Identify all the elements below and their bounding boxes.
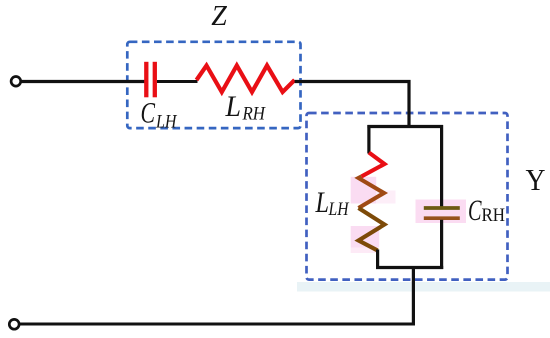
svg-text:C: C: [141, 97, 156, 130]
dashed admittance box Y: [307, 113, 508, 280]
capacitor C_RH: [424, 208, 460, 218]
svg-text:RH: RH: [242, 105, 267, 125]
wire top-left segment: [21, 80, 144, 83]
svg-text:L: L: [315, 186, 329, 219]
wire bottom rail: [20, 322, 415, 325]
wire shunt branch down to bottom rail: [412, 266, 415, 326]
inductor L_LH (brown lower part of zigzag): [359, 208, 385, 251]
svg-text:Z: Z: [211, 1, 227, 32]
highlight behind inductor L_LH (pink marks): [351, 177, 396, 253]
inductor L_RH (red zigzag): [197, 66, 295, 93]
wire right branch lower: [440, 220, 443, 269]
svg-text:LH: LH: [155, 113, 178, 133]
wire from L_RH to top node, then down into shunt branch: [295, 82, 409, 128]
svg-text:L: L: [225, 90, 241, 123]
faint highlight band under Y box bottom edge: [297, 282, 550, 292]
wire right branch upper: [440, 125, 443, 207]
inductor L_LH (brown upper part of zigzag): [359, 176, 385, 208]
svg-text:LH: LH: [328, 200, 350, 220]
wire left branch top stub: [367, 125, 370, 154]
inductor L_LH (red part of zigzag): [362, 153, 385, 177]
dashed impedance box Z: [127, 42, 300, 128]
svg-text:RH: RH: [482, 206, 506, 226]
svg-text:C: C: [468, 194, 482, 227]
terminal port bottom-left: [9, 319, 19, 329]
highlight behind capacitor C_RH (pink mark): [416, 200, 467, 224]
terminal port top-left: [11, 77, 21, 87]
capacitor C_LH: [146, 62, 155, 98]
wire left branch bottom stub: [376, 250, 379, 270]
inner loop bottom wire: [376, 266, 443, 269]
svg-text:Y: Y: [526, 162, 546, 197]
wire between C_LH and L_RH: [157, 80, 198, 83]
inner loop top wire: [367, 125, 443, 128]
